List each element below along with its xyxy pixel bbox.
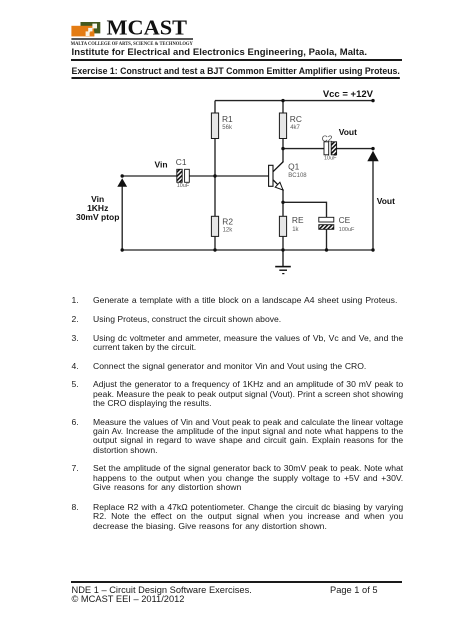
wire: input node to C1 [122,175,177,177]
Vout terminal arrow [367,151,378,161]
capacitor CE [319,215,355,233]
logo rule under wordmark [71,38,193,39]
svg-text:R1: R1 [222,114,233,124]
wire: RC top lead [282,101,284,113]
svg-text:CE: CE [339,215,351,225]
logo orange rectangle [71,26,94,37]
svg-text:Vcc = +12V: Vcc = +12V [323,89,374,100]
node: input node dot [121,174,124,177]
node: bottom rail CE dot [325,248,328,251]
resistor RC [279,113,302,139]
svg-text:100uF: 100uF [339,227,355,233]
wire: Vcc top rail [215,100,373,102]
node: collector junction dot [281,147,284,150]
transistor Q1 [269,161,308,190]
wire: collector node to C2 [283,148,324,150]
wire: RC bottom to collector [282,139,284,163]
logo staircase squares [86,24,97,37]
svg-text:4k7: 4k7 [290,125,300,131]
ground [275,250,291,274]
node: base junction dot [213,174,216,177]
exercise heading [72,66,400,76]
wire: Vout down lead [372,161,374,251]
wire: RE bottom lead [282,236,284,250]
resistor R1 [211,113,233,139]
wire: CE bottom lead [326,229,328,250]
svg-text:C2: C2 [322,134,333,144]
node: bottom rail output dot [371,248,374,251]
svg-text:Q1: Q1 [288,161,300,171]
wire: Vin source down lead [121,186,123,250]
node: bottom rail input dot [121,248,124,251]
svg-text:RC: RC [290,114,302,124]
svg-text:Vout: Vout [377,196,395,206]
svg-text:Vin: Vin [155,160,168,170]
node: Vcc terminal dot [371,99,374,102]
institute heading [72,47,368,58]
wire: C2 to output node [337,148,373,150]
svg-text:1k: 1k [292,227,299,233]
wire: emitter node to CE [283,202,327,217]
svg-text:C1: C1 [176,157,187,167]
svg-text:10uF: 10uF [177,183,190,189]
svg-text:Vout: Vout [339,127,357,137]
node: bottom rail R2 dot [213,248,216,251]
logo green square [81,22,101,33]
source label Vin 1KHz 30mV ptop [76,194,119,222]
svg-text:R2: R2 [222,216,233,226]
wire: C1 to base junction and base [189,175,268,177]
rule under institute heading [71,59,402,60]
Vin source arrow [117,178,127,187]
node: emitter junction dot [281,201,284,204]
capacitor C2 [322,134,337,162]
svg-text:56k: 56k [222,125,233,131]
capacitor C1 [176,157,190,189]
wire: emitter to RE [282,190,284,217]
svg-text:12k: 12k [223,227,234,233]
svg-text:10uF: 10uF [324,156,337,162]
wire: R1 bottom to base junction to R2 top [214,139,216,217]
node: Vcc rail / RC junction dot [281,99,284,102]
svg-text:BC108: BC108 [288,173,307,179]
resistor RE [279,215,304,236]
svg-text:30mV ptop: 30mV ptop [76,212,119,222]
wire: R1 top lead [214,101,216,113]
wire: R2 bottom lead [214,236,216,250]
svg-text:RE: RE [292,215,304,225]
node: output node dot [371,147,374,150]
node: bottom rail emitter dot [281,248,284,251]
resistor R2 [211,216,233,236]
wire: ground bottom rail [122,249,373,251]
